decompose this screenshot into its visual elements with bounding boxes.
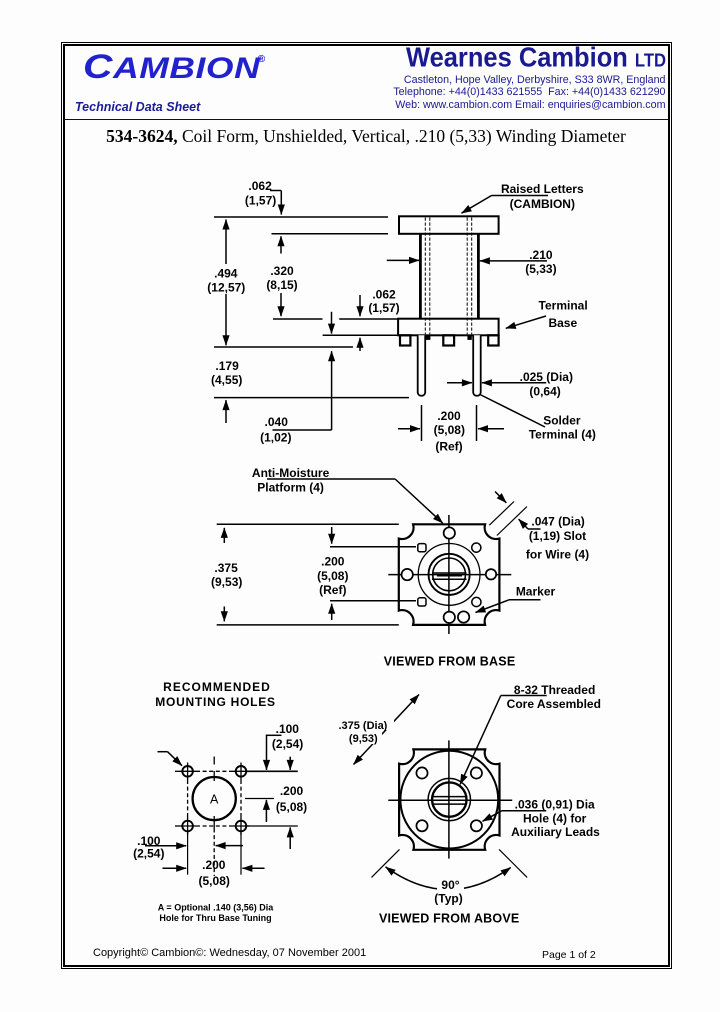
svg-text:A = Optional .140 (3,56) Dia: A = Optional .140 (3,56) Dia [158,903,274,913]
svg-text:.062: .062 [248,179,272,193]
svg-text:Terminal (4): Terminal (4) [529,427,596,441]
svg-text:MOUNTING HOLES: MOUNTING HOLES [155,695,276,709]
svg-text:RECOMMENDED: RECOMMENDED [163,680,271,694]
svg-text:(1,02): (1,02) [260,431,291,445]
svg-text:(4,55): (4,55) [211,373,242,387]
svg-text:A: A [210,793,219,807]
svg-text:Auxiliary Leads: Auxiliary Leads [511,825,600,839]
svg-text:.040: .040 [265,415,289,429]
svg-text:.036 (0,91) Dia: .036 (0,91) Dia [515,797,595,811]
svg-text:Platform (4): Platform (4) [257,480,324,494]
svg-text:Marker: Marker [516,584,556,598]
svg-text:(Ref): (Ref) [435,439,462,453]
svg-text:.320: .320 [270,264,294,278]
svg-text:(CAMBION): (CAMBION) [510,197,575,211]
svg-text:(Typ): (Typ) [434,892,462,906]
svg-text:Terminal: Terminal [539,299,588,313]
svg-text:(2,54): (2,54) [133,847,164,861]
svg-text:(5,08): (5,08) [276,800,307,814]
svg-text:.494: .494 [214,267,238,281]
svg-text:(8,15): (8,15) [266,278,297,292]
svg-text:Hole (4) for: Hole (4) for [523,812,587,826]
svg-text:(5,33): (5,33) [525,262,556,276]
svg-text:.200: .200 [280,784,304,798]
svg-text:Anti-Moisture: Anti-Moisture [252,466,330,480]
svg-text:.100: .100 [276,722,300,736]
svg-text:VIEWED FROM BASE: VIEWED FROM BASE [384,655,516,669]
svg-text:.062: .062 [372,288,396,302]
svg-text:(9,53): (9,53) [211,575,242,589]
svg-text:.200: .200 [437,409,461,423]
svg-text:Core Assembled: Core Assembled [507,697,601,711]
svg-text:.047 (Dia): .047 (Dia) [531,514,584,528]
svg-text:.200: .200 [321,555,345,569]
svg-text:(9,53): (9,53) [349,733,378,745]
svg-text:Hole for Thru Base Tuning: Hole for Thru Base Tuning [159,913,271,923]
svg-text:.025 (Dia): .025 (Dia) [520,370,573,384]
svg-text:for Wire (4): for Wire (4) [526,547,589,561]
svg-text:.200: .200 [202,858,226,872]
svg-text:(5,08): (5,08) [199,874,230,888]
svg-text:Solder: Solder [543,414,581,428]
svg-text:(5,08): (5,08) [434,423,465,437]
svg-text:(5,08): (5,08) [317,569,348,583]
svg-text:.179: .179 [215,359,239,373]
svg-text:(2,54): (2,54) [272,737,303,751]
svg-text:(0,64): (0,64) [529,385,560,399]
svg-text:Raised Letters: Raised Letters [501,182,584,196]
svg-text:(Ref): (Ref) [319,583,346,597]
svg-text:.375: .375 [214,561,238,575]
svg-text:.375 (Dia): .375 (Dia) [338,720,387,732]
svg-text:(1,19) Slot: (1,19) Slot [529,529,586,543]
svg-text:(1,57): (1,57) [245,194,276,208]
svg-text:8-32 Threaded: 8-32 Threaded [514,683,595,697]
svg-text:90°: 90° [441,878,459,892]
svg-text:(1,57): (1,57) [368,301,399,315]
svg-text:VIEWED FROM ABOVE: VIEWED FROM ABOVE [379,912,519,926]
svg-text:(12,57): (12,57) [207,280,245,294]
svg-text:Base: Base [548,316,577,330]
svg-text:.210: .210 [529,248,553,262]
